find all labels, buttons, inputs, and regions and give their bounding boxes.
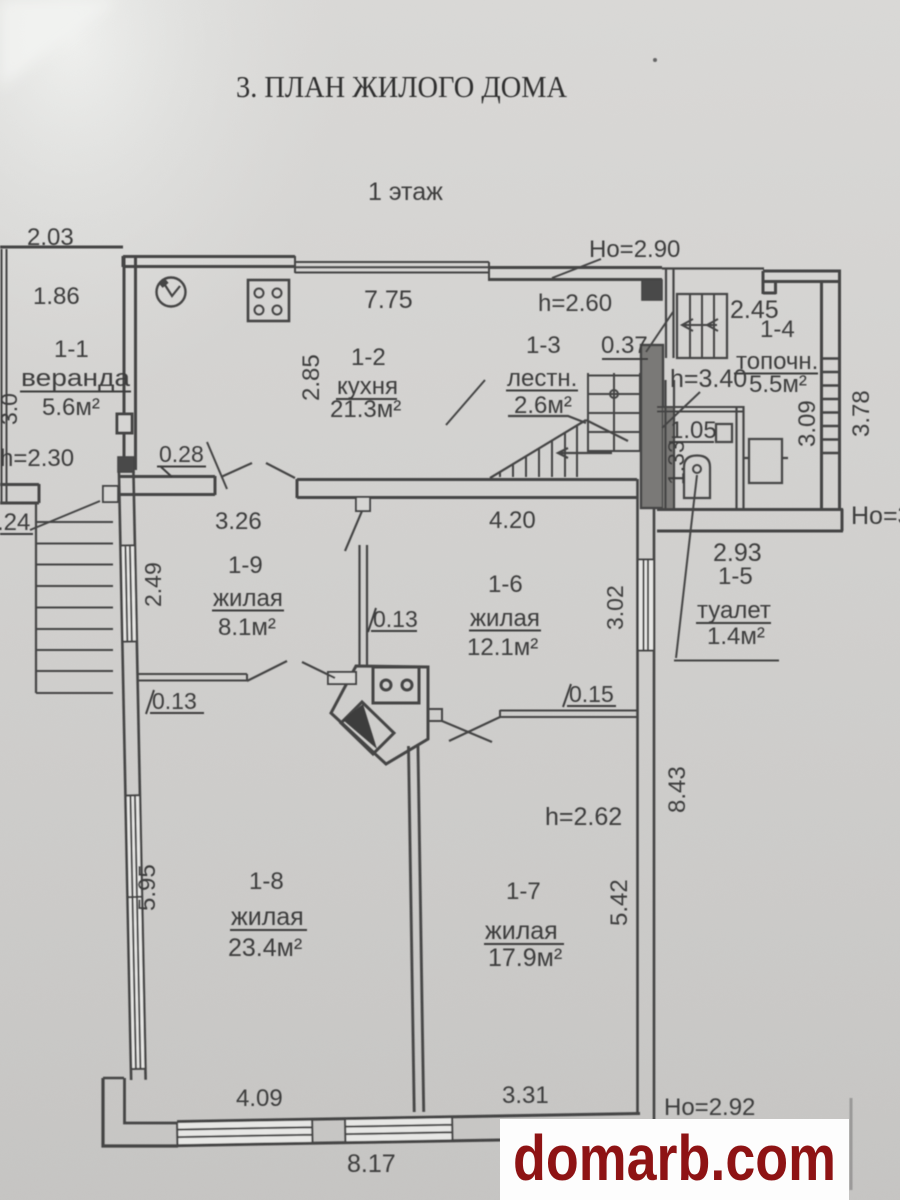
svg-text:0.13: 0.13 bbox=[152, 688, 197, 714]
svg-text:0.15: 0.15 bbox=[569, 681, 614, 707]
svg-text:5.42: 5.42 bbox=[606, 879, 633, 926]
svg-text:туалет: туалет bbox=[697, 597, 771, 624]
svg-text:2.85: 2.85 bbox=[298, 354, 325, 401]
svg-text:3.31: 3.31 bbox=[502, 1082, 549, 1109]
svg-text:жилая: жилая bbox=[213, 585, 283, 612]
svg-text:1-7: 1-7 bbox=[506, 878, 541, 905]
svg-text:3.0: 3.0 bbox=[0, 393, 22, 425]
svg-text:1.4м²: 1.4м² bbox=[707, 623, 765, 650]
svg-text:веранда: веранда bbox=[21, 365, 131, 392]
svg-text:2.03: 2.03 bbox=[27, 224, 74, 251]
svg-text:1.86: 1.86 bbox=[33, 283, 80, 310]
svg-text:17.9м²: 17.9м² bbox=[488, 944, 562, 972]
svg-text:2.6м²: 2.6м² bbox=[514, 392, 572, 419]
svg-text:h=2.62: h=2.62 bbox=[545, 803, 622, 831]
svg-text:7.75: 7.75 bbox=[364, 286, 413, 314]
svg-text:Но=2.92: Но=2.92 bbox=[664, 1094, 755, 1121]
svg-text:1.33: 1.33 bbox=[663, 440, 689, 485]
svg-text:5.6м²: 5.6м² bbox=[42, 394, 100, 421]
svg-text:Но=2.90: Но=2.90 bbox=[589, 236, 680, 263]
svg-text:.24: .24 bbox=[0, 509, 30, 536]
svg-text:Но=3.02: Но=3.02 bbox=[851, 502, 900, 530]
svg-text:h=2.30: h=2.30 bbox=[0, 445, 74, 472]
svg-text:1-9: 1-9 bbox=[228, 552, 263, 579]
svg-text:3.26: 3.26 bbox=[215, 508, 262, 535]
svg-text:0.37: 0.37 bbox=[601, 332, 648, 359]
svg-text:3.02: 3.02 bbox=[602, 585, 628, 630]
svg-text:0.28: 0.28 bbox=[159, 441, 204, 467]
svg-text:0.13: 0.13 bbox=[373, 606, 418, 632]
svg-text:жилая: жилая bbox=[485, 917, 558, 945]
svg-text:h=2.60: h=2.60 bbox=[538, 290, 612, 317]
svg-text:5.5м²: 5.5м² bbox=[749, 371, 807, 398]
svg-text:1-4: 1-4 bbox=[760, 316, 795, 343]
svg-text:1 этаж: 1 этаж bbox=[368, 178, 443, 206]
svg-text:8.1м²: 8.1м² bbox=[218, 614, 276, 641]
svg-text:4.20: 4.20 bbox=[489, 507, 536, 534]
svg-text:3. ПЛАН ЖИЛОГО ДОМА: 3. ПЛАН ЖИЛОГО ДОМА bbox=[236, 69, 568, 104]
svg-text:лестн.: лестн. bbox=[507, 365, 577, 392]
svg-text:жилая: жилая bbox=[470, 605, 540, 632]
svg-text:1-1: 1-1 bbox=[54, 336, 89, 363]
svg-text:12.1м²: 12.1м² bbox=[467, 634, 538, 661]
svg-text:1-8: 1-8 bbox=[249, 868, 284, 895]
svg-text:1-3: 1-3 bbox=[526, 332, 561, 359]
svg-text:1.05: 1.05 bbox=[670, 417, 717, 444]
svg-text:23.4м²: 23.4м² bbox=[228, 934, 302, 962]
svg-text:5.95: 5.95 bbox=[134, 864, 161, 911]
svg-text:1-6: 1-6 bbox=[488, 571, 523, 598]
svg-text:1-5: 1-5 bbox=[718, 563, 753, 590]
svg-text:domarb.com: domarb.com bbox=[513, 1122, 836, 1194]
svg-text:3.78: 3.78 bbox=[848, 390, 875, 437]
svg-text:2.49: 2.49 bbox=[140, 562, 166, 607]
svg-text:21.3м²: 21.3м² bbox=[330, 396, 401, 423]
svg-text:8.17: 8.17 bbox=[347, 1150, 396, 1178]
svg-text:8.43: 8.43 bbox=[664, 766, 691, 813]
svg-text:жилая: жилая bbox=[231, 903, 304, 931]
svg-text:1-2: 1-2 bbox=[351, 344, 386, 371]
svg-text:4.09: 4.09 bbox=[236, 1085, 283, 1112]
svg-text:3.09: 3.09 bbox=[794, 400, 821, 447]
